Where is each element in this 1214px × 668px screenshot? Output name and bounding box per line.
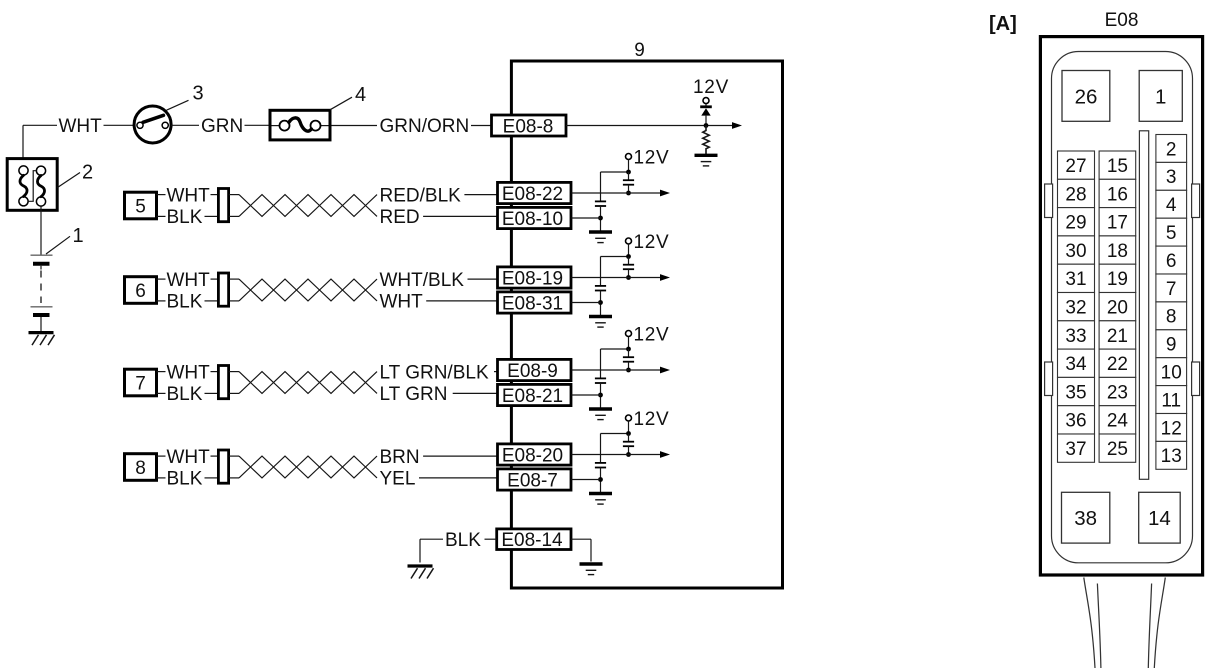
svg-text:4: 4	[355, 84, 366, 106]
svg-text:1: 1	[73, 225, 84, 247]
svg-text:E08-20: E08-20	[502, 445, 563, 466]
svg-text:20: 20	[1107, 297, 1128, 318]
svg-text:15: 15	[1107, 156, 1128, 177]
svg-text:7: 7	[1166, 279, 1177, 300]
svg-text:36: 36	[1065, 411, 1086, 432]
svg-text:34: 34	[1065, 354, 1087, 375]
svg-text:24: 24	[1107, 411, 1129, 432]
svg-text:21: 21	[1107, 326, 1128, 347]
svg-text:9: 9	[634, 40, 645, 61]
svg-text:E08-9: E08-9	[507, 361, 558, 382]
svg-text:E08: E08	[1105, 10, 1139, 31]
svg-text:WHT: WHT	[167, 185, 211, 206]
svg-text:18: 18	[1107, 241, 1128, 262]
svg-text:26: 26	[1075, 85, 1098, 108]
svg-text:4: 4	[1166, 195, 1177, 216]
svg-text:LT GRN/BLK: LT GRN/BLK	[380, 362, 489, 383]
svg-text:17: 17	[1107, 213, 1128, 234]
svg-text:12V: 12V	[634, 409, 670, 430]
svg-text:33: 33	[1065, 326, 1086, 347]
svg-text:12: 12	[1161, 418, 1182, 439]
svg-text:29: 29	[1065, 213, 1086, 234]
svg-text:19: 19	[1107, 269, 1128, 290]
svg-text:BLK: BLK	[167, 292, 203, 313]
svg-text:E08-7: E08-7	[507, 470, 558, 491]
svg-text:32: 32	[1065, 297, 1086, 318]
svg-text:GRN: GRN	[201, 116, 243, 137]
svg-text:E08-14: E08-14	[501, 530, 563, 551]
svg-text:RED/BLK: RED/BLK	[380, 185, 462, 206]
svg-text:10: 10	[1161, 362, 1182, 383]
svg-text:35: 35	[1065, 382, 1086, 403]
svg-text:16: 16	[1107, 184, 1128, 205]
svg-text:1: 1	[1155, 85, 1166, 108]
svg-text:BLK: BLK	[167, 469, 203, 490]
svg-text:BLK: BLK	[167, 384, 203, 405]
svg-text:22: 22	[1107, 354, 1128, 375]
svg-text:E08-10: E08-10	[502, 209, 563, 230]
svg-text:E08-8: E08-8	[503, 116, 554, 137]
svg-text:13: 13	[1161, 446, 1182, 467]
svg-text:3: 3	[193, 83, 204, 105]
svg-text:GRN/ORN: GRN/ORN	[380, 116, 470, 137]
svg-text:25: 25	[1107, 439, 1128, 460]
svg-text:8: 8	[135, 458, 146, 479]
svg-text:5: 5	[135, 196, 146, 217]
svg-text:14: 14	[1148, 507, 1171, 530]
svg-text:6: 6	[135, 281, 146, 302]
svg-text:WHT/BLK: WHT/BLK	[380, 270, 465, 291]
svg-text:BLK: BLK	[445, 530, 481, 551]
svg-text:WHT: WHT	[380, 292, 424, 313]
svg-text:E08-19: E08-19	[502, 268, 563, 289]
svg-text:7: 7	[135, 373, 146, 394]
svg-text:YEL: YEL	[380, 469, 416, 490]
svg-text:5: 5	[1166, 223, 1177, 244]
svg-text:12V: 12V	[693, 77, 729, 98]
svg-text:E08-22: E08-22	[502, 184, 563, 205]
svg-text:31: 31	[1065, 269, 1086, 290]
svg-text:12V: 12V	[634, 232, 670, 253]
svg-text:RED: RED	[380, 207, 420, 228]
svg-text:BRN: BRN	[380, 447, 420, 468]
svg-text:30: 30	[1065, 241, 1086, 262]
svg-text:WHT: WHT	[59, 116, 103, 137]
svg-text:37: 37	[1065, 439, 1086, 460]
svg-text:BLK: BLK	[167, 207, 203, 228]
svg-text:2: 2	[82, 162, 93, 184]
svg-text:[A]: [A]	[989, 13, 1017, 35]
svg-text:3: 3	[1166, 167, 1177, 188]
svg-text:27: 27	[1065, 156, 1086, 177]
svg-text:2: 2	[1166, 139, 1177, 160]
svg-text:28: 28	[1065, 184, 1086, 205]
svg-text:12V: 12V	[634, 324, 670, 345]
svg-text:WHT: WHT	[167, 270, 211, 291]
svg-text:23: 23	[1107, 382, 1128, 403]
svg-text:E08-21: E08-21	[502, 386, 563, 407]
svg-text:8: 8	[1166, 307, 1177, 328]
svg-text:E08-31: E08-31	[502, 293, 563, 314]
svg-text:9: 9	[1166, 335, 1177, 356]
svg-text:12V: 12V	[634, 147, 670, 168]
svg-text:WHT: WHT	[167, 362, 211, 383]
svg-text:11: 11	[1161, 390, 1181, 411]
svg-text:LT GRN: LT GRN	[380, 384, 448, 405]
svg-text:WHT: WHT	[167, 447, 211, 468]
svg-text:6: 6	[1166, 251, 1177, 272]
svg-text:38: 38	[1074, 507, 1097, 530]
